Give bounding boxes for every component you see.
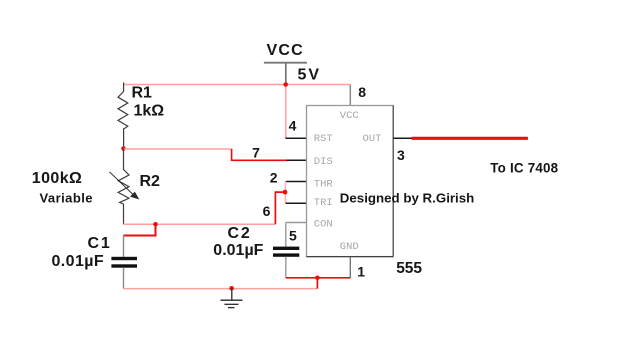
node ground junction xyxy=(229,286,234,291)
wire THR-TRI link xyxy=(285,182,287,204)
wire DIS stub xyxy=(287,159,307,161)
svg-text:DIS: DIS xyxy=(314,156,333,168)
wire TRI stub xyxy=(286,202,307,204)
resistor R1 xyxy=(118,83,128,149)
svg-text:GND: GND xyxy=(340,241,359,253)
ground xyxy=(221,289,243,308)
wire pin 8 xyxy=(349,85,351,106)
wire C2 top lead xyxy=(285,223,287,247)
capacitor C1 xyxy=(111,257,137,268)
wire junction down to C1 xyxy=(124,224,156,235)
wire pin 1 horizontal xyxy=(286,277,351,279)
svg-text:5: 5 xyxy=(289,228,297,244)
svg-text:R2: R2 xyxy=(140,173,161,190)
wire ground bus xyxy=(124,288,318,290)
svg-text:4: 4 xyxy=(289,117,297,133)
IC bottom edge shade xyxy=(307,256,394,258)
wire GND pin lead xyxy=(349,257,351,278)
svg-text:VCC: VCC xyxy=(340,110,359,122)
wire riser up to THR/TRI xyxy=(275,192,285,224)
svg-text:Designed by R.Girish: Designed by R.Girish xyxy=(340,190,474,205)
wire C1 bottom lead xyxy=(123,268,125,289)
VCC rail bar xyxy=(264,62,307,64)
wire C1 top lead xyxy=(123,236,125,257)
svg-text:To IC 7408: To IC 7408 xyxy=(490,160,558,175)
wire VCC horizontal bus xyxy=(124,84,351,86)
svg-text:0.01µF: 0.01µF xyxy=(52,253,105,270)
svg-text:C1: C1 xyxy=(88,235,112,252)
R2 wiper arrow xyxy=(109,172,138,199)
svg-text:8: 8 xyxy=(358,84,366,100)
svg-text:100kΩ: 100kΩ xyxy=(32,170,82,187)
wire R2 bottom horizontal xyxy=(124,223,276,225)
wire pin 4 vertical xyxy=(285,85,287,139)
svg-text:2: 2 xyxy=(270,169,278,185)
node THR/TRI junction xyxy=(283,190,288,195)
svg-text:VCC: VCC xyxy=(267,42,304,59)
capacitor C2 xyxy=(273,247,299,257)
wire OUT stub xyxy=(393,137,411,139)
svg-text:1kΩ: 1kΩ xyxy=(134,102,165,119)
node VCC junction xyxy=(283,82,288,87)
svg-text:Variable: Variable xyxy=(40,191,93,206)
svg-text:7: 7 xyxy=(252,144,260,160)
potentiometer R2 xyxy=(118,149,129,225)
wire step down to DIS xyxy=(232,149,288,160)
svg-text:C2: C2 xyxy=(228,225,252,242)
IC U1 555 body xyxy=(307,106,394,257)
svg-text:R1: R1 xyxy=(132,85,153,102)
svg-text:OUT: OUT xyxy=(363,133,382,145)
svg-text:RST: RST xyxy=(314,133,333,145)
wire CON stub xyxy=(286,222,307,224)
wire THR stub xyxy=(286,181,307,183)
svg-text:0.01µF: 0.01µF xyxy=(213,242,263,259)
IC right edge shade xyxy=(392,106,394,257)
node pin 1 junction xyxy=(315,276,320,281)
wire C2 bottom lead xyxy=(285,257,287,278)
wire pin 1 drop xyxy=(316,278,318,289)
svg-text:555: 555 xyxy=(396,260,422,277)
svg-text:TRI: TRI xyxy=(314,197,333,209)
svg-text:3: 3 xyxy=(397,147,405,163)
svg-text:6: 6 xyxy=(263,203,271,219)
node R1/R2 junction xyxy=(121,146,126,151)
svg-text:CON: CON xyxy=(314,218,333,230)
node R2/C1 junction xyxy=(153,222,158,227)
svg-text:THR: THR xyxy=(314,178,334,190)
svg-text:5V: 5V xyxy=(298,66,322,83)
VCC stem wire xyxy=(285,63,287,85)
svg-text:1: 1 xyxy=(357,264,365,280)
wire output to IC 7408 xyxy=(412,137,528,140)
wire junction to step xyxy=(124,148,233,150)
wire RST stub xyxy=(285,137,306,139)
